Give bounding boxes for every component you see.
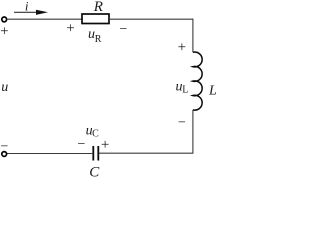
svg-text:−: − xyxy=(78,137,86,152)
wire bottom-right xyxy=(98,152,193,154)
svg-text:L: L xyxy=(182,84,188,95)
svg-text:i: i xyxy=(25,0,29,13)
svg-text:C: C xyxy=(92,129,99,140)
svg-text:C: C xyxy=(89,164,100,179)
wire bottom-left xyxy=(7,153,93,155)
terminal top-left xyxy=(2,17,7,22)
svg-text:u: u xyxy=(1,80,8,95)
terminal bottom-left xyxy=(2,152,7,157)
svg-text:−: − xyxy=(1,139,9,154)
svg-text:+: + xyxy=(0,23,8,39)
inductor L1 xyxy=(193,52,202,110)
capacitor C1 xyxy=(93,146,98,161)
svg-text:−: − xyxy=(119,22,127,37)
wire top-right xyxy=(109,18,193,20)
current arrow i xyxy=(14,10,48,15)
svg-text:R: R xyxy=(95,34,102,45)
wire right lower xyxy=(192,110,194,153)
wire right upper xyxy=(192,19,194,52)
resistor R1 xyxy=(82,14,109,24)
svg-text:L: L xyxy=(208,83,217,98)
wire top-left xyxy=(7,18,82,20)
svg-text:R: R xyxy=(93,0,103,15)
svg-text:−: − xyxy=(178,116,186,131)
svg-text:+: + xyxy=(178,40,186,56)
svg-text:+: + xyxy=(101,137,109,153)
svg-text:+: + xyxy=(66,21,74,37)
